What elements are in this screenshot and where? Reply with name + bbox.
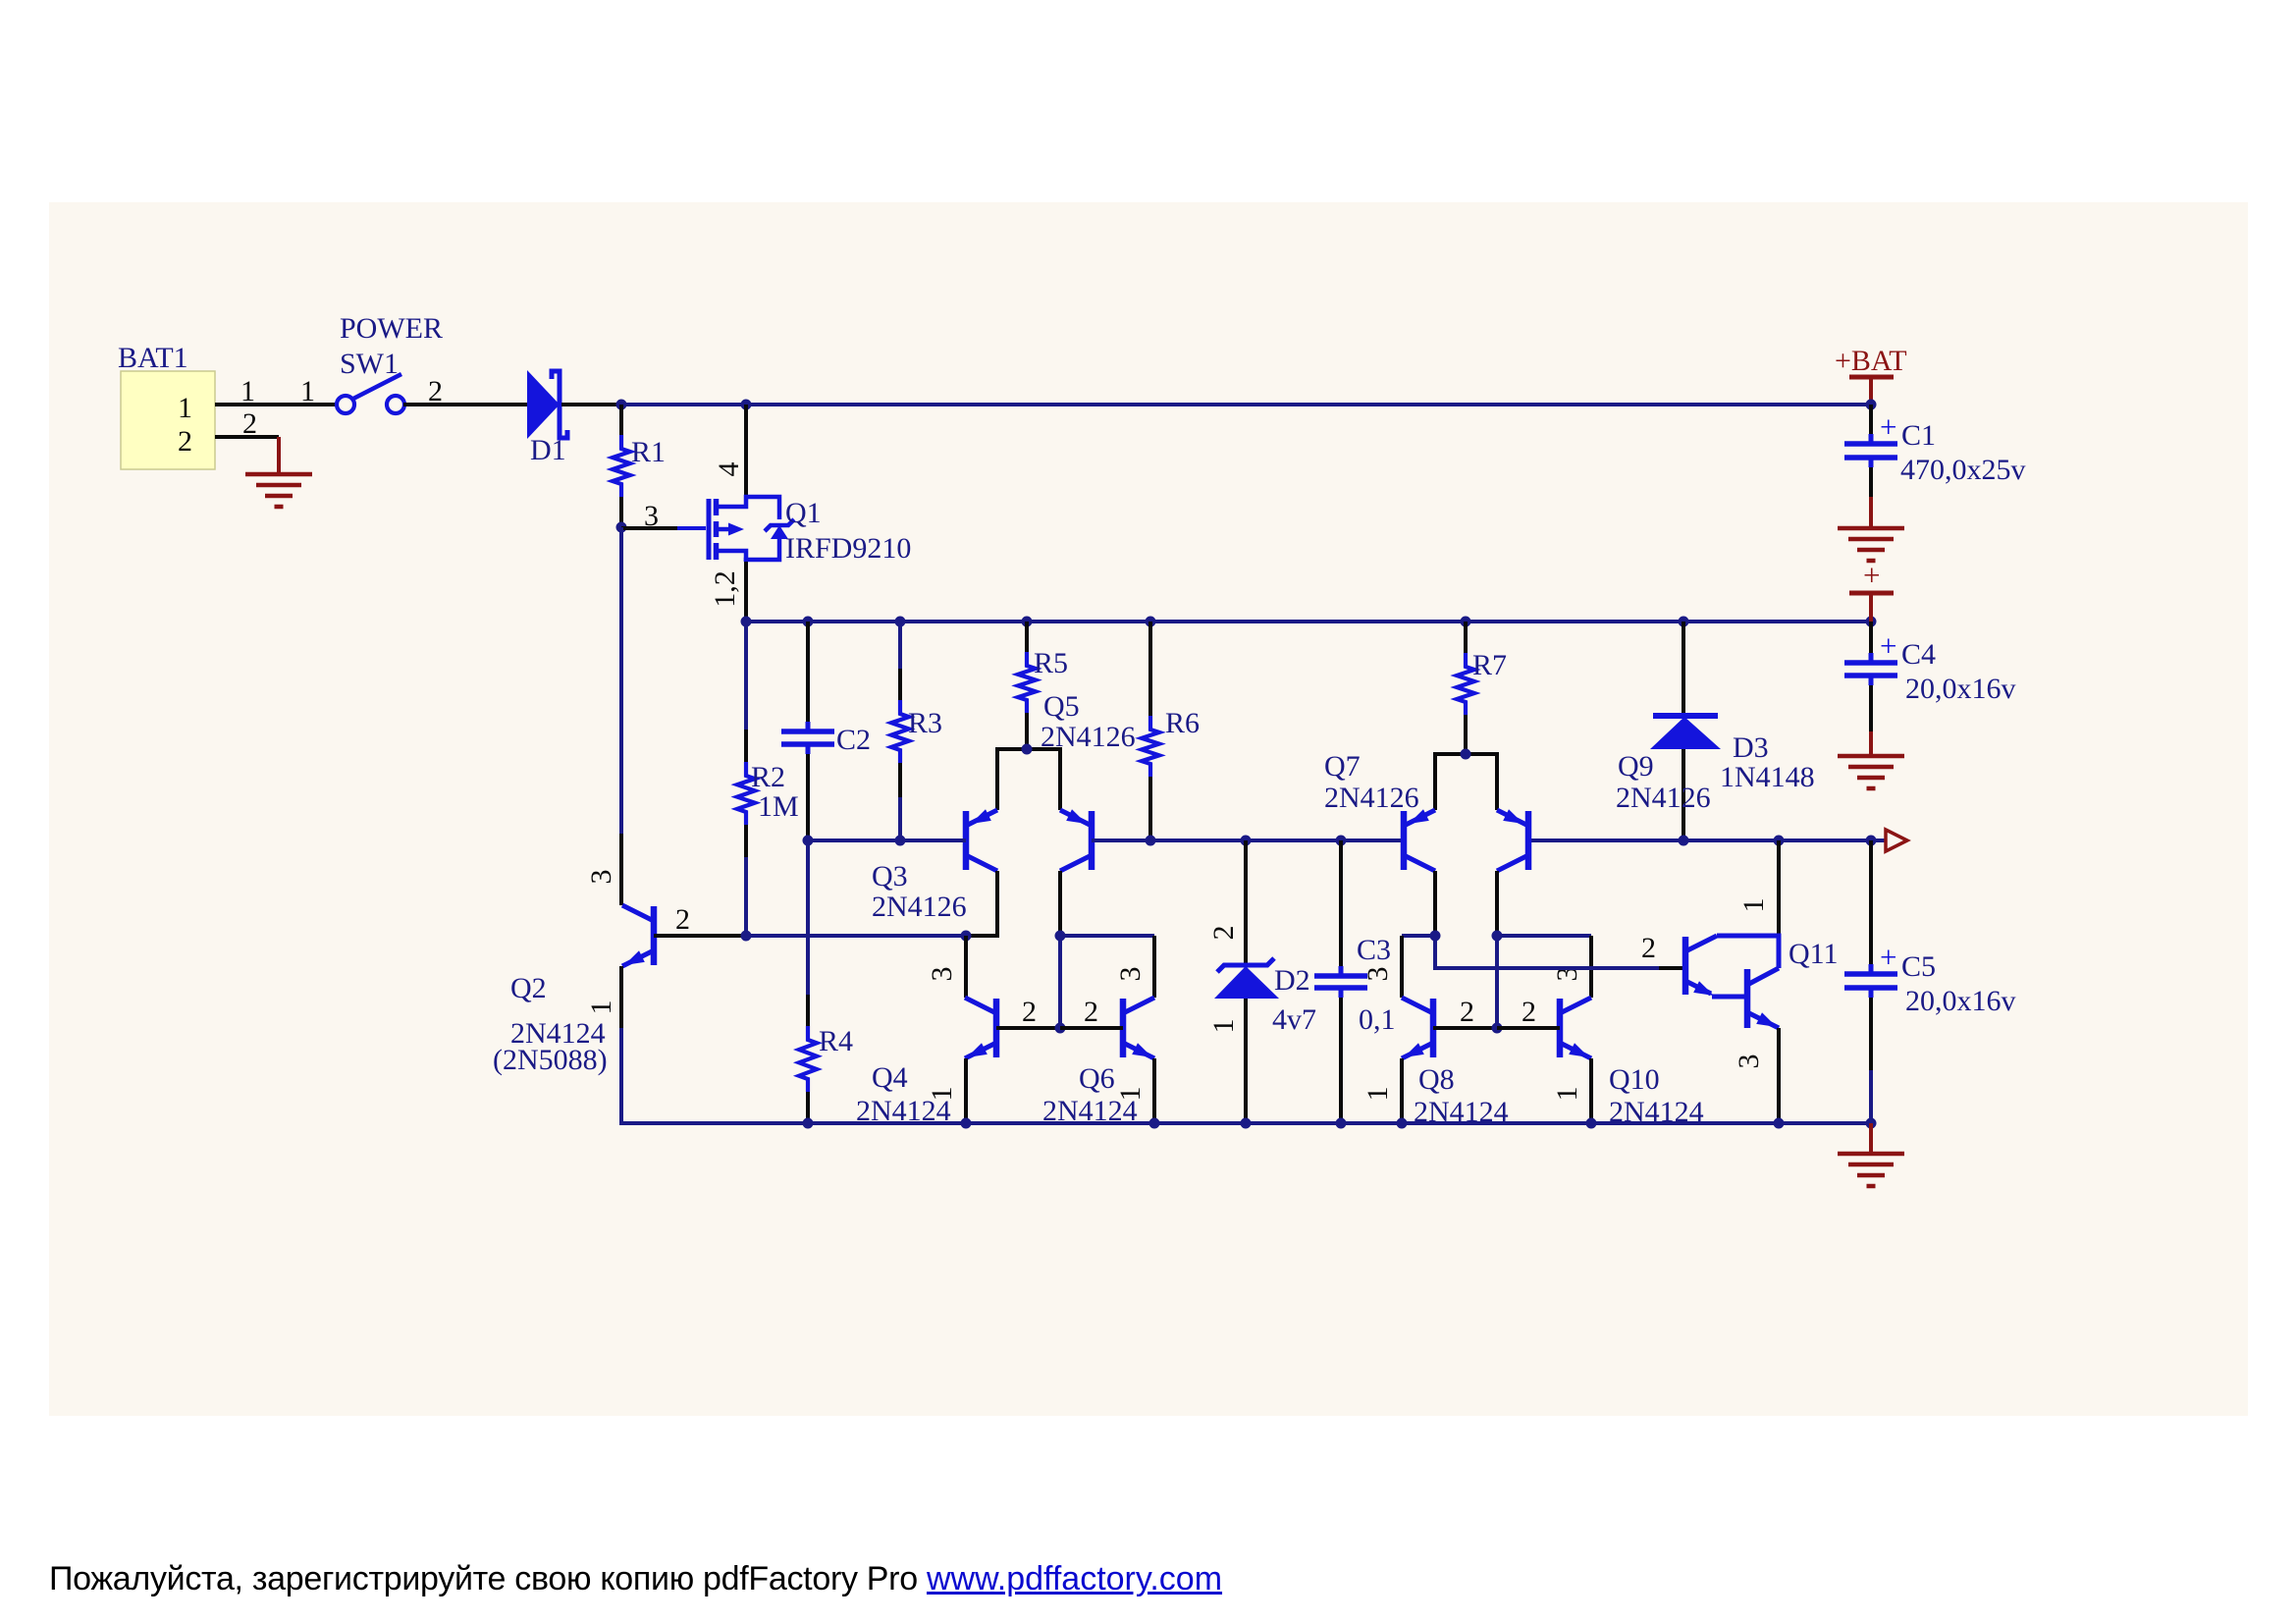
- svg-text:R5: R5: [1034, 647, 1068, 679]
- node R6 bottom: [1146, 836, 1156, 846]
- resistor R7: [1457, 622, 1474, 754]
- capacitor C2 label: [836, 724, 871, 756]
- transistor Q5 value: [1041, 721, 1136, 753]
- resistor R5: [1018, 622, 1036, 749]
- svg-text:C1: C1: [1901, 419, 1936, 452]
- pin number 2 (Q8 base): [1460, 996, 1474, 1028]
- svg-text:Q6: Q6: [1079, 1062, 1115, 1095]
- switch SW1 label: [340, 348, 399, 380]
- resistor R3: [891, 622, 909, 840]
- svg-text:3: 3: [1362, 967, 1394, 982]
- transistor Q7 value: [1324, 782, 1419, 814]
- svg-text:20,0x16v: 20,0x16v: [1905, 985, 2016, 1017]
- zener D2 label: [1274, 964, 1310, 997]
- transistor Q5: [1060, 809, 1092, 871]
- svg-text:C3: C3: [1357, 934, 1391, 966]
- resistor R2 label: [751, 761, 785, 793]
- wire Q7-collector node to Q11 base: [1435, 936, 1685, 968]
- wire Q9 collector to Q10 collector: [1497, 936, 1591, 998]
- svg-text:1: 1: [1207, 1019, 1240, 1034]
- svg-text:4: 4: [713, 462, 745, 477]
- wire ground rail: [621, 1121, 1871, 1125]
- wire D2 cathode (pin 2): [1244, 840, 1248, 965]
- node at R1 top: [616, 400, 627, 410]
- transistor Q2: [622, 905, 654, 966]
- node on second rail x=1172: [1146, 617, 1156, 627]
- node Q8/Q10 base junction: [1492, 1023, 1503, 1034]
- svg-text:POWER: POWER: [340, 312, 443, 345]
- capacitor C3 label: [1357, 934, 1391, 966]
- node R7 bottom: [1461, 749, 1471, 760]
- transistor Q10 value: [1609, 1096, 1704, 1128]
- power port +BAT bar: [1849, 377, 1894, 405]
- transistor Q4: [965, 998, 996, 1058]
- ground (C4): [1838, 756, 1904, 788]
- transistor Q9 label: [1618, 750, 1654, 783]
- wire Q4 emitter (pin 1): [964, 1058, 968, 1123]
- svg-text:R7: R7: [1472, 649, 1507, 681]
- node D2 top: [1241, 836, 1252, 846]
- svg-text:2: 2: [1207, 926, 1240, 941]
- resistor R1: [613, 405, 630, 527]
- node Q5 collector junction: [1055, 931, 1066, 942]
- wire Q11 collector bracket: [1717, 936, 1779, 968]
- capacitor C3: [1314, 840, 1367, 1123]
- transistor Q1 label: [785, 497, 822, 529]
- svg-text:2: 2: [1022, 996, 1037, 1028]
- pin number 1 (Q11 collector): [1737, 898, 1770, 913]
- pin number 1 (Q4 emitter): [926, 1087, 958, 1102]
- node on second rail x=823: [803, 617, 814, 627]
- ground (main): [1838, 1154, 1904, 1186]
- wire top rail (+BAT net): [621, 403, 1871, 406]
- svg-text:1: 1: [178, 392, 192, 424]
- diode D3 label: [1733, 731, 1769, 764]
- resistor R2: [737, 622, 755, 936]
- svg-text:Q1: Q1: [785, 497, 822, 529]
- svg-text:D3: D3: [1733, 731, 1769, 764]
- wire BAT1 pin1 to SW1: [215, 403, 338, 406]
- pin number 3 (Q2 collector): [585, 870, 617, 885]
- pin number 2 (Q10 base): [1522, 996, 1536, 1028]
- svg-text:3: 3: [644, 500, 659, 532]
- wire second rail (Q1 source net): [746, 620, 1871, 623]
- wire base rail middle segment: [1092, 839, 1404, 842]
- svg-text:Q3: Q3: [872, 860, 908, 893]
- resistor R3 label: [908, 707, 942, 739]
- node C2 bottom: [803, 836, 814, 846]
- transistor Q11 first stage: [1685, 936, 1747, 997]
- svg-text:R4: R4: [819, 1025, 853, 1057]
- svg-text:+: +: [1863, 558, 1880, 592]
- svg-text:3: 3: [1733, 1055, 1765, 1069]
- svg-text:Q5: Q5: [1043, 690, 1080, 723]
- wire Q10 emitter (pin 1): [1589, 1058, 1593, 1123]
- power port + (C4): [1863, 558, 1880, 592]
- wire Q4 base: [996, 1026, 1060, 1030]
- pin number 1 (SW1 left): [300, 375, 315, 407]
- transistor Q9: [1497, 809, 1528, 871]
- pin number 2 (BAT1 pin2): [242, 407, 257, 440]
- svg-text:Q7: Q7: [1324, 750, 1361, 783]
- svg-text:D2: D2: [1274, 964, 1310, 997]
- svg-text:2: 2: [242, 407, 257, 440]
- svg-text:C2: C2: [836, 724, 871, 756]
- node Q3/Q4 collector junction: [961, 931, 972, 942]
- node on second rail x=1046: [1022, 617, 1033, 627]
- svg-text:2: 2: [675, 903, 690, 936]
- svg-text:2: 2: [1084, 996, 1098, 1028]
- capacitor C5 value: [1905, 985, 2016, 1017]
- pin number 4 (Q1): [713, 462, 745, 477]
- wire Q11 collector (pin 1): [1777, 840, 1781, 936]
- wire D1 to node: [561, 403, 621, 406]
- svg-text:BAT1: BAT1: [118, 342, 188, 374]
- resistor R4 label: [819, 1025, 853, 1057]
- pin number 2 (Q11 base): [1641, 932, 1656, 964]
- svg-text:2N4126: 2N4126: [1324, 782, 1419, 814]
- svg-text:1N4148: 1N4148: [1720, 761, 1815, 793]
- wire Q2 base (pin 2): [654, 934, 746, 938]
- capacitor C1 plus: [1880, 409, 1896, 444]
- svg-text:C5: C5: [1901, 950, 1936, 983]
- pin number 3 (Q6 collector): [1114, 967, 1147, 982]
- node Q11 collector top: [1774, 836, 1785, 846]
- node ground rail at C5/ground: [1866, 1118, 1877, 1129]
- capacitor C1: [1844, 405, 1897, 497]
- svg-text:1: 1: [1114, 1087, 1147, 1102]
- pin number 2 (D2): [1207, 926, 1240, 941]
- svg-text:R6: R6: [1165, 707, 1200, 739]
- switch SW1 label POWER: [340, 312, 443, 345]
- wire Q7 collector: [1433, 871, 1437, 936]
- capacitor C5 plus: [1880, 940, 1896, 974]
- pin number 2 (Q4 base): [1022, 996, 1037, 1028]
- transistor Q10 label: [1609, 1063, 1660, 1096]
- node ground rail at Q4 emitter: [961, 1118, 972, 1129]
- node on second rail x=917: [895, 617, 906, 627]
- switch SW1 contacts: [337, 396, 404, 413]
- transistor Q8: [1402, 998, 1433, 1058]
- node +BAT / C1: [1866, 400, 1877, 410]
- transistor Q6 label: [1079, 1062, 1115, 1095]
- transistor Q1 IRFD9210 symbol: [709, 497, 794, 562]
- resistor R6 label: [1165, 707, 1200, 739]
- svg-text:C4: C4: [1901, 638, 1936, 671]
- transistor Q8 value: [1414, 1096, 1509, 1128]
- wire Q8 emitter (pin 1): [1400, 1058, 1404, 1123]
- transistor Q6 value: [1042, 1095, 1138, 1127]
- capacitor C5: [1844, 840, 1897, 1123]
- node R1 bottom / Q1 gate / Q2 collector: [616, 522, 627, 533]
- transistor Q3: [966, 809, 997, 871]
- svg-text:2N4126: 2N4126: [872, 891, 967, 923]
- output arrow: [1886, 830, 1907, 851]
- transistor Q7 label: [1324, 750, 1361, 783]
- wire Q3 collector: [966, 871, 997, 936]
- svg-text:1: 1: [926, 1087, 958, 1102]
- svg-text:2: 2: [1641, 932, 1656, 964]
- capacitor C3 value: [1359, 1003, 1396, 1036]
- svg-text:+BAT: +BAT: [1835, 345, 1907, 377]
- transistor Q1 value: [785, 532, 911, 565]
- wire Q11 emitter (pin 3): [1777, 1028, 1781, 1123]
- resistor R6: [1142, 622, 1159, 840]
- wire Q7/Q9 emitter bracket: [1435, 754, 1497, 810]
- svg-text:R1: R1: [631, 436, 666, 468]
- transistor Q10: [1560, 998, 1591, 1058]
- svg-text:Q4: Q4: [872, 1061, 908, 1094]
- node Q4/Q6 base junction: [1055, 1023, 1066, 1034]
- transistor Q7: [1404, 809, 1435, 871]
- wire Q3/Q5 emitter bracket: [997, 749, 1060, 810]
- diode D1 (schottky): [527, 370, 567, 439]
- transistor Q4 label: [872, 1061, 908, 1094]
- svg-text:1M: 1M: [758, 790, 799, 823]
- node ground rail at C3: [1336, 1118, 1347, 1129]
- capacitor C4 plus: [1880, 628, 1896, 663]
- svg-text:2: 2: [1522, 996, 1536, 1028]
- zener diode D2: [1214, 958, 1279, 999]
- node D3 bottom: [1679, 836, 1689, 846]
- diode D1 label: [530, 434, 566, 466]
- node on second rail x=1493: [1461, 617, 1471, 627]
- svg-text:3: 3: [926, 967, 958, 982]
- wire Q5 collector to Q6 collector: [1060, 936, 1154, 998]
- svg-text:Q8: Q8: [1418, 1063, 1455, 1096]
- pin number 1 (Q6 emitter): [1114, 1087, 1147, 1102]
- power port +BAT label: [1835, 345, 1907, 377]
- schematic background: [49, 202, 2248, 1416]
- node ground rail at Q10 emitter: [1586, 1118, 1597, 1129]
- transistor Q8 label: [1418, 1063, 1455, 1096]
- node ground rail at Q8 emitter: [1397, 1118, 1408, 1129]
- wire Q6 base: [1060, 1026, 1123, 1030]
- svg-text:Q9: Q9: [1618, 750, 1654, 783]
- svg-text:2: 2: [178, 425, 192, 458]
- node at Q1 drain: [741, 400, 752, 410]
- wire Q8 base: [1433, 1026, 1497, 1030]
- svg-text:2N4126: 2N4126: [1041, 721, 1136, 753]
- svg-text:D1: D1: [530, 434, 566, 466]
- pin number 2 (SW1 right): [428, 375, 443, 407]
- node C5 top: [1866, 836, 1877, 846]
- node R3 bottom: [895, 836, 906, 846]
- pin number 1 (Q8 emitter): [1362, 1087, 1394, 1102]
- transistor Q2 alt value: [493, 1044, 608, 1076]
- node C3 top: [1336, 836, 1347, 846]
- wire C4 to ground: [1869, 731, 1873, 756]
- node Q9 collector junction: [1492, 931, 1503, 942]
- transistor Q3 value: [872, 891, 967, 923]
- wire Q2-base node to Q3/Q4 collectors: [746, 934, 966, 938]
- resistor R5 label: [1034, 647, 1068, 679]
- transistor Q11 label: [1789, 938, 1839, 970]
- svg-text:2: 2: [1460, 996, 1474, 1028]
- wire Q10 base: [1497, 1026, 1560, 1030]
- node R5 bottom: [1022, 744, 1033, 755]
- diode D3: [1650, 622, 1721, 840]
- svg-text:2N4126: 2N4126: [1616, 782, 1711, 814]
- wire Q2 collector (pin 3): [619, 527, 623, 905]
- node on second rail x=760: [741, 617, 752, 627]
- capacitor C1 value: [1900, 454, 2026, 486]
- pin number 3 (Q1 gate): [644, 500, 659, 532]
- svg-text:IRFD9210: IRFD9210: [785, 532, 911, 565]
- capacitor C5 label: [1901, 950, 1936, 983]
- wire Q5 collector to Q4/Q6 bases: [1058, 936, 1062, 1028]
- transistor Q4 value: [856, 1095, 951, 1127]
- svg-text:1: 1: [1362, 1087, 1394, 1102]
- node ground rail at R4: [803, 1118, 814, 1129]
- wire SW1 to D1: [403, 403, 527, 406]
- pin number 3 (Q8 collector): [1362, 967, 1394, 982]
- svg-text:3: 3: [585, 870, 617, 885]
- ground (BAT1): [245, 474, 312, 507]
- transistor Q3 label: [872, 860, 908, 893]
- svg-text:20,0x16v: 20,0x16v: [1905, 673, 2016, 705]
- battery BAT1 body: [121, 371, 215, 469]
- ground (C1): [1838, 528, 1904, 561]
- wire Q1 source pins 1,2: [744, 562, 748, 622]
- transistor Q11 second stage: [1747, 968, 1779, 1028]
- battery BAT1 label: [118, 342, 188, 374]
- svg-text:R3: R3: [908, 707, 942, 739]
- transistor Q5 label: [1043, 690, 1080, 723]
- pin number 1 (BAT1 pin1): [240, 375, 255, 407]
- node Q7 collector junction: [1430, 931, 1441, 942]
- wire D2 anode (pin 1): [1244, 999, 1248, 1123]
- pin numbers 1,2 (Q1): [709, 570, 741, 608]
- svg-text:+: +: [1880, 628, 1896, 663]
- svg-text:Q2: Q2: [510, 972, 547, 1004]
- svg-text:1: 1: [240, 375, 255, 407]
- resistor R7 label: [1472, 649, 1507, 681]
- watermark text: [49, 1560, 1222, 1598]
- capacitor C4 value: [1905, 673, 2016, 705]
- wire base rail right segment: [1528, 839, 1886, 842]
- capacitor C4: [1844, 622, 1897, 731]
- node R2 bottom / Q2 base: [741, 931, 752, 942]
- wire Q5 collector: [1058, 871, 1062, 936]
- wire Q9 collector to Q8/Q10 bases: [1495, 936, 1499, 1028]
- wire Q1 gate (pin 3): [621, 526, 706, 530]
- svg-text:SW1: SW1: [340, 348, 399, 380]
- wire BAT1 pin2 stub: [215, 435, 279, 439]
- capacitor C2: [781, 622, 834, 840]
- wire Q7 collector to Q8 collector: [1402, 936, 1435, 998]
- pin number 1 (D2): [1207, 1019, 1240, 1034]
- svg-text:3: 3: [1114, 967, 1147, 982]
- resistor R1 label: [631, 436, 666, 468]
- resistor R4: [799, 840, 817, 1123]
- capacitor C4 label: [1901, 638, 1936, 671]
- svg-text:Q10: Q10: [1609, 1063, 1660, 1096]
- wire to main ground: [1869, 1123, 1873, 1154]
- wire base rail left segment: [808, 839, 966, 842]
- svg-text:+: +: [1880, 409, 1896, 444]
- node on second rail x=1906: [1866, 617, 1877, 627]
- wire to BAT1 ground: [277, 437, 281, 474]
- svg-text:1: 1: [1551, 1087, 1583, 1102]
- transistor Q2 label: [510, 972, 547, 1004]
- pin number 1 (Q2 emitter): [585, 1001, 617, 1015]
- svg-text:1: 1: [1737, 898, 1770, 913]
- node ground rail at Q11 emitter: [1774, 1118, 1785, 1129]
- wire Q1 drain pin 4: [744, 405, 748, 501]
- BAT1 internal pin names: [178, 392, 192, 458]
- svg-text:1: 1: [300, 375, 315, 407]
- pin number 2 (Q6 base): [1084, 996, 1098, 1028]
- svg-text:470,0x25v: 470,0x25v: [1900, 454, 2026, 486]
- svg-text:4v7: 4v7: [1272, 1003, 1316, 1036]
- switch SW1 arm: [353, 374, 401, 399]
- svg-text:R2: R2: [751, 761, 785, 793]
- power port bar (C4): [1849, 593, 1894, 622]
- zener D2 value: [1272, 1003, 1316, 1036]
- pin number 3 (Q4 collector): [926, 967, 958, 982]
- svg-text:+: +: [1880, 940, 1896, 974]
- node ground rail at Q6 emitter: [1149, 1118, 1160, 1129]
- svg-text:(2N5088): (2N5088): [493, 1044, 608, 1076]
- pin number 1 (Q10 emitter): [1551, 1087, 1583, 1102]
- wire C1 to ground: [1869, 497, 1873, 528]
- node ground rail at D2: [1241, 1118, 1252, 1129]
- pin number 3 (Q11 emitter): [1733, 1055, 1765, 1069]
- transistor Q2 value: [510, 1017, 606, 1050]
- pin number 2 (Q2 base): [675, 903, 690, 936]
- transistor Q9 value: [1616, 782, 1711, 814]
- transistor Q6: [1123, 998, 1154, 1058]
- svg-text:1,2: 1,2: [709, 570, 741, 608]
- resistor R2 value: [758, 790, 799, 823]
- svg-text:1: 1: [585, 1001, 617, 1015]
- wire Q9 collector: [1495, 871, 1499, 936]
- diode D3 value: [1720, 761, 1815, 793]
- wire Q4 collector upper (pin 3): [964, 936, 968, 998]
- svg-text:Q11: Q11: [1789, 938, 1839, 970]
- node on second rail x=1715: [1679, 617, 1689, 627]
- pin number 3 (Q10 collector): [1551, 967, 1583, 982]
- wire Q6 emitter (pin 1): [1152, 1058, 1156, 1123]
- svg-text:0,1: 0,1: [1359, 1003, 1396, 1036]
- wire Q2 emitter (pin 1): [619, 966, 623, 1125]
- capacitor C1 label: [1901, 419, 1936, 452]
